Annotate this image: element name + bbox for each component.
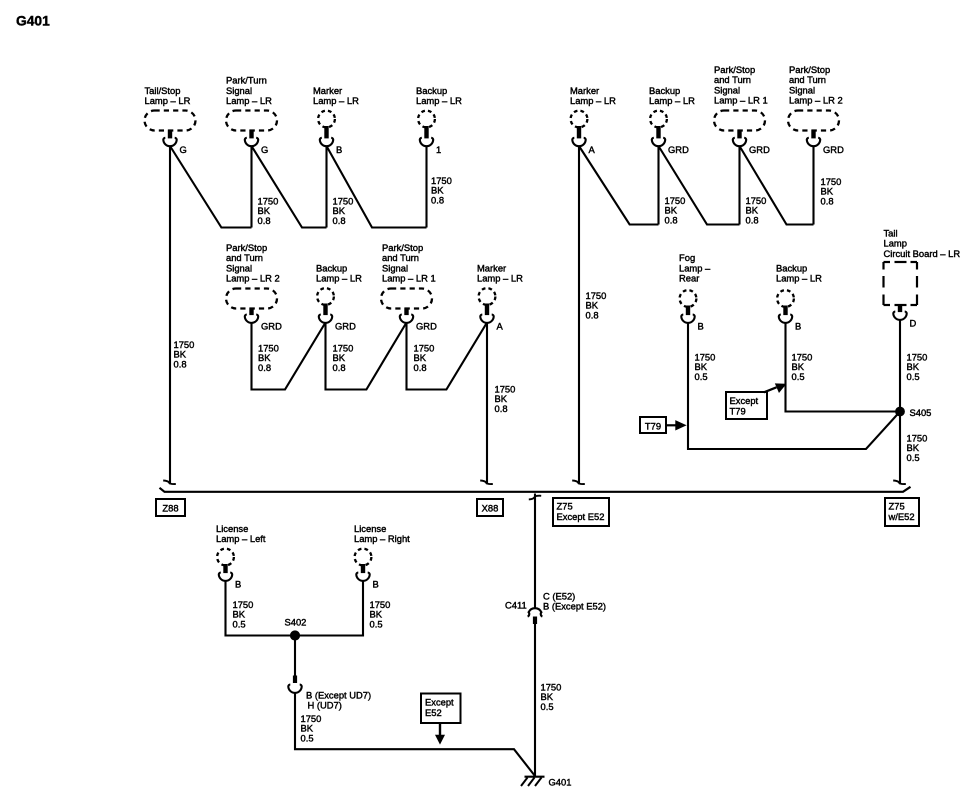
wire value label 1750 BK 0.5 xyxy=(541,682,562,712)
svg-text:0.8: 0.8 xyxy=(586,309,599,320)
wire LR1 GRD vertical drop xyxy=(738,146,740,225)
wire B License Left to S402 xyxy=(226,581,296,636)
inline connector below S402 (B/H) xyxy=(288,676,301,693)
svg-text:G: G xyxy=(180,144,187,155)
svg-text:0.8: 0.8 xyxy=(821,195,834,206)
arrow Except E52 to ground run wire xyxy=(436,723,444,744)
svg-text:Lamp – LR: Lamp – LR xyxy=(477,273,523,284)
connector Park/Stop and Turn Signal Lamp - LR 2 (upper) xyxy=(788,64,844,155)
svg-text:T79: T79 xyxy=(730,406,746,417)
svg-text:Lamp – LR: Lamp – LR xyxy=(145,95,191,106)
svg-text:A: A xyxy=(497,321,504,332)
wire Backup GRD vertical drop xyxy=(657,146,659,225)
wire value label 1750 BK 0.8 xyxy=(258,196,279,226)
wire value label 1750 BK 0.8 xyxy=(665,195,686,225)
svg-text:S402: S402 xyxy=(285,616,307,627)
wire Marker vertical drop xyxy=(325,146,327,228)
bus attachment hook Z75 wire xyxy=(572,481,585,485)
svg-text:GRD: GRD xyxy=(416,321,437,332)
terminal label B (Except UD7) / H (UD7) xyxy=(306,689,371,710)
wire value label 1750 BK 0.5 xyxy=(907,352,928,382)
svg-text:Except: Except xyxy=(730,395,759,406)
wire Backup GRD drop and chain xyxy=(326,323,407,390)
wire A Marker to chain xyxy=(579,146,659,225)
wire D Tail Lamp board to Z75 w/E52 bus xyxy=(899,320,901,485)
wire G Park/Turn to chain xyxy=(252,146,327,228)
svg-text:0.5: 0.5 xyxy=(792,371,805,382)
svg-text:GRD: GRD xyxy=(261,321,282,332)
svg-text:G: G xyxy=(261,144,268,155)
svg-text:Lamp – Left: Lamp – Left xyxy=(216,533,266,544)
svg-text:0.8: 0.8 xyxy=(746,214,759,225)
svg-text:0.8: 0.8 xyxy=(495,403,508,414)
wire B License Right to S402 xyxy=(295,581,363,636)
connector Tail/Stop Lamp - LR xyxy=(145,85,196,155)
svg-text:Rear: Rear xyxy=(679,273,699,284)
bus attachment hook X88 wire xyxy=(480,481,493,485)
wire value label 1750 BK 0.8 xyxy=(258,343,279,373)
svg-text:GRD: GRD xyxy=(335,321,356,332)
wire C411 down to ground G401 xyxy=(534,624,536,776)
wire bus down to C411 xyxy=(534,494,536,610)
svg-text:GRD: GRD xyxy=(668,144,689,155)
arrow Except T79 to backup lamp wire xyxy=(764,384,786,392)
svg-text:Lamp – LR 1: Lamp – LR 1 xyxy=(714,95,768,106)
wire value label 1750 BK 0.8 xyxy=(746,195,767,225)
connector License Lamp - Left xyxy=(216,523,266,590)
svg-text:GRD: GRD xyxy=(749,144,770,155)
svg-text:Lamp – LR: Lamp – LR xyxy=(226,95,272,106)
svg-text:Z75: Z75 xyxy=(889,500,905,511)
svg-text:0.8: 0.8 xyxy=(333,215,346,226)
svg-text:Z75: Z75 xyxy=(557,500,573,511)
bus attachment hook Z75 w/E52 wire xyxy=(893,481,906,485)
svg-text:Z88: Z88 xyxy=(162,502,178,513)
connector Backup Lamp - LR (upper right) xyxy=(649,85,695,155)
callout box T79 xyxy=(640,417,666,433)
wire value label 1750 BK 0.5 xyxy=(370,599,391,629)
splice S405 xyxy=(896,407,932,418)
svg-text:G401: G401 xyxy=(16,13,50,28)
inline connector C411 xyxy=(528,608,543,624)
wire GRD LR1 to chain xyxy=(740,146,814,225)
ground bus line xyxy=(160,487,911,492)
svg-text:0.5: 0.5 xyxy=(695,371,708,382)
wire value label 1750 BK 0.5 xyxy=(233,599,254,629)
connector Marker Lamp - LR (upper left) xyxy=(313,85,359,155)
net box X88 xyxy=(477,499,503,516)
wire LR2 GRD vertical drop xyxy=(812,146,814,225)
wire 1750 BK 0.8 Tail/Stop down to Z88 bus xyxy=(169,146,171,484)
wire value label 1750 BK 0.5 xyxy=(792,352,813,382)
wire value label 1750 BK 0.5 xyxy=(907,433,928,463)
svg-text:0.5: 0.5 xyxy=(907,371,920,382)
svg-text:1: 1 xyxy=(436,144,441,155)
wire Park/Turn vertical drop xyxy=(250,146,252,228)
svg-text:Circuit Board – LR: Circuit Board – LR xyxy=(884,248,961,259)
ground symbol G401 xyxy=(521,777,571,788)
connector License Lamp - Right xyxy=(354,523,410,590)
net box Z75 w/E52 xyxy=(885,498,919,526)
wire value label 1750 BK 0.8 xyxy=(821,176,842,206)
wire value label 1750 BK 0.8 xyxy=(431,175,452,205)
wire value label 1750 BK 0.8 xyxy=(586,290,607,320)
wire value label 1750 BK 0.8 xyxy=(495,384,516,414)
svg-text:H (UD7): H (UD7) xyxy=(308,700,342,711)
svg-text:A: A xyxy=(589,144,596,155)
svg-text:D: D xyxy=(910,318,917,329)
wire 1750 BK 0.8 Marker down to Z75 bus xyxy=(578,146,580,484)
svg-text:0.8: 0.8 xyxy=(665,214,678,225)
svg-text:Except: Except xyxy=(425,696,454,707)
wire B Marker to chain xyxy=(327,146,427,228)
svg-text:0.8: 0.8 xyxy=(258,362,271,373)
svg-text:0.8: 0.8 xyxy=(414,362,427,373)
svg-text:Lamp – Right: Lamp – Right xyxy=(354,533,410,544)
svg-text:B: B xyxy=(795,321,801,332)
wire B Fog Lamp to S405 xyxy=(688,323,900,450)
svg-text:B: B xyxy=(698,321,704,332)
connector Backup Lamp - LR (upper left) xyxy=(416,85,462,155)
svg-text:0.8: 0.8 xyxy=(174,358,187,369)
svg-text:0.5: 0.5 xyxy=(301,732,314,743)
connector Park/Stop and Turn Signal Lamp - LR 2 (lower) xyxy=(226,242,282,332)
svg-text:Lamp – LR 2: Lamp – LR 2 xyxy=(226,273,280,284)
connector Park/Turn Signal Lamp - LR xyxy=(226,75,277,155)
svg-text:Lamp – LR: Lamp – LR xyxy=(776,273,822,284)
svg-text:Lamp – LR: Lamp – LR xyxy=(416,95,462,106)
wire value label 1750 BK 0.5 xyxy=(301,713,322,743)
svg-text:w/E52: w/E52 xyxy=(888,511,915,522)
svg-text:B: B xyxy=(373,579,379,590)
wire GRD Backup to chain xyxy=(659,146,740,225)
svg-text:0.8: 0.8 xyxy=(431,194,444,205)
wire value label 1750 BK 0.5 xyxy=(695,352,716,382)
svg-text:Lamp – LR: Lamp – LR xyxy=(316,273,362,284)
wire value label 1750 BK 0.8 xyxy=(174,339,195,369)
connector Marker Lamp - LR (lower left) xyxy=(477,262,523,331)
wire 1750 BK 0.8 Marker A down to X88 bus xyxy=(486,323,488,485)
svg-text:0.8: 0.8 xyxy=(333,362,346,373)
svg-text:0.8: 0.8 xyxy=(258,215,271,226)
callout box Except T79 xyxy=(726,392,767,419)
connector Park/Stop and Turn Signal Lamp - LR 1 (upper) xyxy=(714,64,770,155)
wire S402 down to inline connector xyxy=(294,636,296,677)
wire LR1 GRD drop and chain xyxy=(407,323,488,390)
terminal label C (E52) / B (Except E52) xyxy=(543,590,606,611)
svg-text:0.5: 0.5 xyxy=(233,618,246,629)
connector Park/Stop and Turn Signal Lamp - LR 1 (lower) xyxy=(381,242,437,332)
splice S402 xyxy=(285,616,307,640)
net box Z75 Except E52 xyxy=(553,498,609,526)
svg-text:Lamp – LR: Lamp – LR xyxy=(649,95,695,106)
svg-text:GRD: GRD xyxy=(823,144,844,155)
svg-text:T79: T79 xyxy=(645,421,661,432)
bus attachment hook C411 wire (below bus) xyxy=(529,496,541,500)
svg-text:S405: S405 xyxy=(910,407,932,418)
svg-text:Except E52: Except E52 xyxy=(557,511,605,522)
svg-text:B (Except E52): B (Except E52) xyxy=(543,601,606,612)
connector Marker Lamp - LR (upper right) xyxy=(570,85,616,155)
svg-text:C411: C411 xyxy=(505,600,527,611)
wire inline connector to ground run xyxy=(295,693,535,777)
wire value label 1750 BK 0.8 xyxy=(333,343,354,373)
wire LR2 GRD drop and chain xyxy=(252,323,326,390)
connector Backup Lamp - LR (lower right) xyxy=(776,262,822,331)
wire G Tail/Stop to chain xyxy=(170,146,252,228)
svg-text:B: B xyxy=(235,579,241,590)
connector Fog Lamp - Rear xyxy=(679,252,711,331)
bus attachment hook Z88 wire xyxy=(163,481,176,485)
svg-text:E52: E52 xyxy=(425,707,442,718)
svg-text:0.5: 0.5 xyxy=(907,452,920,463)
svg-text:Lamp – LR: Lamp – LR xyxy=(570,95,616,106)
arrow T79 to fog lamp wire xyxy=(666,421,686,430)
svg-text:0.5: 0.5 xyxy=(541,701,554,712)
svg-text:G401: G401 xyxy=(549,777,572,788)
svg-text:Lamp – LR: Lamp – LR xyxy=(313,95,359,106)
net box Z88 xyxy=(156,499,185,516)
svg-text:0.5: 0.5 xyxy=(370,618,383,629)
connector Tail Lamp Circuit Board - LR xyxy=(884,228,961,329)
svg-text:B: B xyxy=(336,144,342,155)
wire value label 1750 BK 0.8 xyxy=(414,343,435,373)
connector Backup Lamp - LR (lower left) xyxy=(316,262,362,331)
wire value label 1750 BK 0.8 xyxy=(333,196,354,226)
svg-text:X88: X88 xyxy=(482,502,499,513)
svg-text:Lamp – LR 1: Lamp – LR 1 xyxy=(382,273,436,284)
wire Backup vertical drop xyxy=(425,146,427,228)
callout box Except E52 xyxy=(421,694,461,724)
wire B Backup to S405 xyxy=(786,323,901,412)
svg-text:Lamp – LR 2: Lamp – LR 2 xyxy=(789,95,843,106)
